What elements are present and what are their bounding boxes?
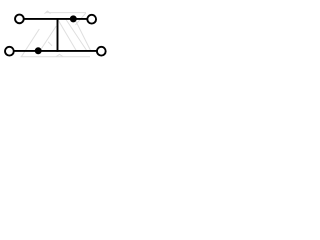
wire bottom level — [13, 50, 97, 52]
terminal 3 (bottom-left open circle) — [5, 47, 14, 56]
terminal 4 (bottom-right open circle) — [97, 47, 106, 56]
jumper wire (vertical link between levels) — [57, 18, 59, 52]
watermark — [21, 11, 91, 57]
junction dot top level — [70, 15, 77, 22]
wire top level — [23, 18, 87, 20]
terminal 1 (top-left open circle) — [15, 15, 24, 24]
terminal 2 (top-right open circle) — [87, 15, 96, 24]
junction dot bottom level — [35, 47, 42, 54]
